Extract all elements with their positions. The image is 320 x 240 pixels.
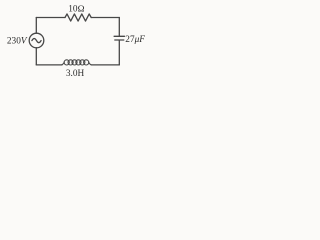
wire top-left horizontal	[36, 17, 65, 19]
svg-text:230V: 230V	[7, 37, 28, 47]
wire bottom-right horizontal	[91, 64, 119, 66]
inductor L 3.0H	[62, 60, 92, 65]
svg-text:3.0H: 3.0H	[66, 69, 85, 79]
sine wave inside source	[32, 39, 41, 43]
resistor R 10ohm	[65, 14, 91, 21]
wire left vertical upper	[35, 18, 37, 34]
AC source V1 230V	[29, 33, 44, 48]
wire bottom-left horizontal	[36, 64, 62, 66]
wire right vertical upper	[118, 18, 120, 36]
capacitor C 27uF	[114, 36, 124, 40]
wire top-right horizontal	[91, 17, 119, 19]
svg-text:10Ω: 10Ω	[68, 5, 84, 15]
wire right vertical lower	[118, 41, 120, 65]
svg-text:27μF: 27μF	[125, 35, 145, 45]
wire left vertical lower	[35, 48, 37, 65]
